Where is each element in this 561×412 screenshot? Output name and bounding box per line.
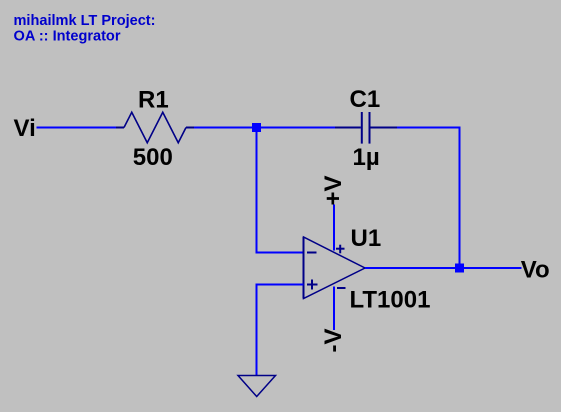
svg-text:1µ: 1µ [353, 144, 380, 171]
node A junction square [252, 123, 261, 132]
op-amp V- pin minus sign [337, 287, 346, 289]
wire node A down to inverting input [257, 128, 304, 253]
wire V- supply [333, 287, 335, 331]
svg-text:500: 500 [133, 144, 173, 171]
op-amp non-inverting input plus sign [307, 280, 318, 290]
svg-text:R1: R1 [138, 86, 169, 113]
svg-text:Vi: Vi [14, 115, 36, 142]
resistor R1 [116, 112, 194, 143]
svg-text:+V: +V [320, 175, 347, 205]
wire V+ supply [333, 205, 335, 251]
wire non-inverting input to ground [257, 285, 304, 376]
svg-text:LT1001: LT1001 [350, 287, 431, 314]
svg-text:U1: U1 [351, 225, 382, 252]
op-amp V+ pin plus sign [336, 245, 345, 254]
wire C1 to output node [397, 128, 460, 269]
wire Vi to R1 [37, 127, 118, 129]
capacitor C1 [335, 112, 397, 144]
op-amp U1 [304, 237, 366, 299]
svg-text:Vo: Vo [521, 256, 550, 283]
output node junction square [455, 264, 464, 273]
svg-text:C1: C1 [350, 86, 381, 113]
wire op-amp output to Vo [365, 267, 522, 269]
ground [238, 376, 276, 397]
svg-text:mihailmk LT Project:: mihailmk LT Project: [14, 13, 156, 29]
op-amp inverting input minus sign [307, 252, 317, 254]
wire R1 to node A [194, 127, 335, 129]
svg-text:OA :: Integrator: OA :: Integrator [14, 28, 121, 44]
svg-text:-V: -V [320, 329, 347, 353]
